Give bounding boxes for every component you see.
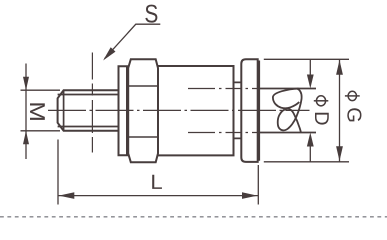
svg-text:S: S — [144, 0, 158, 28]
svg-text:D: D — [310, 111, 332, 125]
svg-text:G: G — [342, 107, 364, 123]
svg-text:M: M — [25, 101, 49, 121]
svg-text:L: L — [150, 171, 162, 194]
